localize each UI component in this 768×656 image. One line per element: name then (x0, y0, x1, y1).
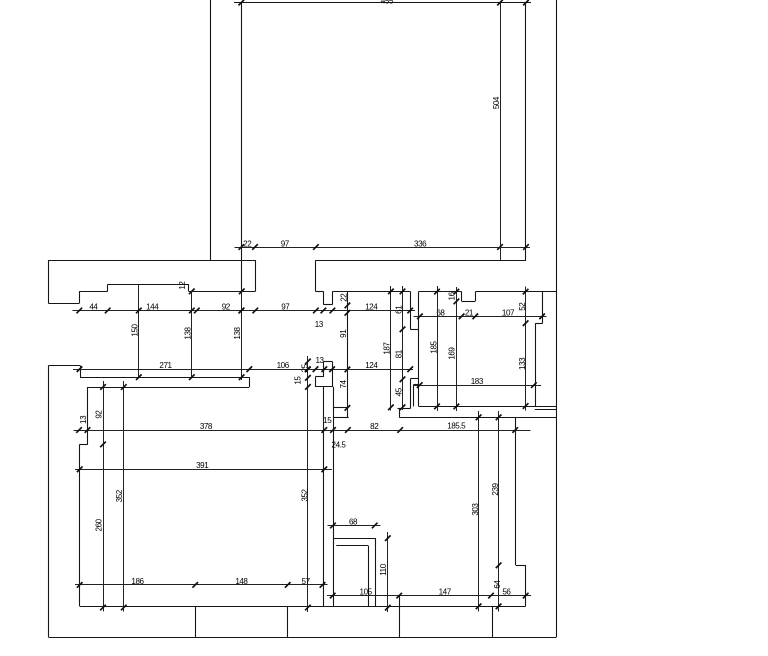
svg-text:391: 391 (196, 461, 209, 470)
wall: top-left double wall outer line (210, 0, 212, 261)
svg-text:105: 105 (360, 588, 373, 597)
svg-text:97: 97 (281, 239, 290, 248)
svg-text:45: 45 (394, 387, 403, 396)
wall: right room right wall with jog (535, 292, 542, 407)
svg-text:144: 144 (146, 303, 159, 312)
svg-text:169: 169 (448, 347, 457, 360)
svg-text:57: 57 (302, 577, 311, 586)
svg-text:61: 61 (394, 305, 403, 314)
svg-text:56: 56 (502, 588, 511, 597)
dim line y=467.9: 391 (75, 469, 332, 471)
wall: bottom-right section top edge (399, 417, 556, 419)
dim label 455 (cut off at top) (381, 0, 394, 5)
dim line x=103: 92 260 (103, 381, 105, 612)
wall: left band top with step (49, 365, 250, 377)
wall: bottom-right room right wall with jog (516, 417, 526, 606)
svg-text:24.5: 24.5 (332, 441, 347, 450)
wall: long floor line of bottom rooms (80, 606, 526, 608)
dim line x=139.1: 150 (138, 285, 140, 378)
svg-text:13: 13 (315, 356, 324, 365)
svg-text:378: 378 (200, 422, 213, 431)
dim line y=584.9: 186 148 57 (75, 584, 328, 586)
svg-text:25: 25 (301, 363, 310, 372)
svg-text:185: 185 (429, 340, 438, 353)
dim line y=429.7: 13 378 15 24.5 82 185.5 (74, 430, 531, 432)
svg-text:455: 455 (381, 0, 394, 5)
wall: doorway jambs below bottom-left room (196, 606, 288, 637)
svg-text:92: 92 (95, 410, 104, 419)
dim marks on x=347.4: 22 91 74 (345, 303, 351, 411)
svg-text:124: 124 (365, 303, 378, 312)
dim line x=390.9: 187 (390, 286, 392, 411)
wall: pier x=347 with caps (333, 291, 349, 417)
svg-text:138: 138 (233, 326, 242, 339)
svg-text:13: 13 (79, 415, 88, 424)
svg-text:74: 74 (339, 380, 348, 389)
svg-text:124: 124 (365, 361, 378, 370)
wall: left outer border (48, 365, 50, 637)
wall: right room top edge with notch (419, 292, 557, 302)
svg-text:15: 15 (294, 376, 303, 385)
dim line x=307.9: 25 15 352 (307, 356, 309, 612)
svg-text:186: 186 (131, 577, 144, 586)
dim line y=310.5: 44 144 92 97 124 13 (73, 310, 416, 312)
svg-text:303: 303 (471, 503, 480, 516)
wall: vertical from dim line to corridor wall x=316 (315, 260, 317, 291)
svg-text:110: 110 (379, 563, 388, 576)
svg-text:52: 52 (518, 302, 527, 311)
svg-text:148: 148 (235, 577, 248, 586)
wall: right room left wall (418, 291, 420, 406)
svg-text:91: 91 (339, 329, 348, 338)
wall: header band stepped bottom profile (49, 260, 256, 303)
svg-text:352: 352 (115, 489, 124, 502)
dim line y=595.6: 105 147 56 (327, 595, 531, 597)
svg-text:64: 64 (493, 580, 502, 589)
svg-text:82: 82 (370, 422, 379, 431)
wall: bottom outer border (49, 637, 557, 639)
svg-text:92: 92 (222, 303, 231, 312)
wall: top rectangle right edge (525, 3, 527, 261)
wall: corridor top wall with notch (315, 291, 410, 304)
wall: top-left double wall inner line / top rect left edge (241, 3, 243, 292)
dim line x=525.6: 52 133 (525, 287, 527, 411)
svg-text:16: 16 (448, 291, 457, 300)
svg-text:68: 68 (349, 518, 358, 527)
svg-text:106: 106 (277, 361, 290, 370)
dim line 504 vertical (500, 3, 502, 261)
dim line x=478.6: 303 (478, 411, 480, 612)
dim line x=387.8: 110 (387, 532, 389, 612)
dim line y=368.9: 271 106 124 (73, 369, 413, 371)
dim line x=191.8: 138 (191, 292, 193, 378)
svg-text:271: 271 (159, 361, 172, 370)
dim label 12 (step in header) (178, 281, 187, 290)
wall: long horizontal below top rectangle / header top (49, 260, 527, 262)
svg-text:150: 150 (131, 323, 140, 336)
svg-text:15: 15 (323, 416, 332, 425)
svg-text:44: 44 (89, 303, 98, 312)
svg-text:239: 239 (491, 482, 500, 495)
svg-text:22: 22 (340, 293, 349, 302)
wall: shaft nested rectangles (333, 538, 375, 606)
svg-text:260: 260 (95, 518, 104, 531)
svg-text:336: 336 (414, 239, 427, 248)
svg-text:22: 22 (243, 239, 252, 248)
svg-text:185.5: 185.5 (447, 421, 466, 430)
wall: lower door stub left of right room (398, 378, 419, 417)
svg-text:352: 352 (301, 488, 310, 501)
wall: bottom-left room left wall with jog 13 (80, 387, 88, 606)
dim line x=498.6: 239 64 (498, 411, 500, 612)
dim line x=402.5: 61 81 45 (402, 286, 404, 410)
wall: door stub right of corridor (410, 291, 418, 329)
svg-text:187: 187 (383, 342, 392, 355)
svg-text:183: 183 (471, 377, 484, 386)
svg-text:13: 13 (315, 320, 324, 329)
wall: doorway jambs below bottom-right room (400, 596, 493, 638)
wall: double wall pair A between left room and shaft (315, 387, 333, 607)
svg-text:81: 81 (394, 349, 403, 358)
svg-text:12: 12 (178, 281, 187, 290)
dim line x=123.8: 352 (123, 381, 125, 612)
svg-text:133: 133 (518, 357, 527, 370)
svg-text:138: 138 (184, 326, 193, 339)
dim line y=384.9: 183 (414, 385, 542, 387)
wall+dim: top edge of upper rectangle with dim 455 (234, 2, 531, 4)
dim label 13 at corridor jog (315, 356, 324, 365)
wall: right room floor line (419, 407, 557, 410)
svg-text:21: 21 (465, 308, 474, 317)
svg-text:504: 504 (492, 96, 501, 109)
wall: right outer border (556, 0, 558, 637)
dim line x=241.3: 138 (241, 291, 243, 380)
dim line x=453.5: 16 169 (456, 287, 458, 411)
svg-text:97: 97 (281, 303, 290, 312)
wall: jog above pair A (315, 362, 332, 387)
svg-text:147: 147 (439, 588, 452, 597)
dim line y=316.3: 68 21 107 (414, 316, 547, 318)
dim line y=245 with 22 97 336 (235, 247, 531, 249)
wall: left band bottom and right cap (87, 377, 249, 387)
dim line y=525.5: 68 (328, 525, 381, 527)
svg-text:107: 107 (502, 308, 515, 317)
ticks on header bottom edge (189, 289, 245, 295)
dim line x=435.3: 185 (437, 286, 439, 411)
